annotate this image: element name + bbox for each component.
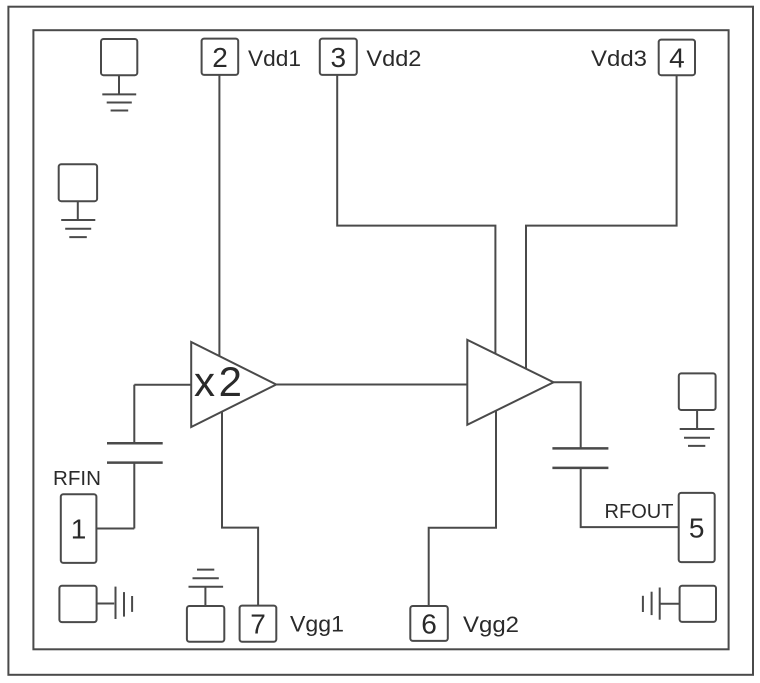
- wire amplifier output to cap C2: [554, 382, 581, 448]
- svg-text:Vdd1: Vdd1: [248, 46, 301, 71]
- svg-text:7: 7: [250, 609, 266, 640]
- svg-text:6: 6: [421, 609, 437, 640]
- ground (below left pad): [61, 201, 95, 237]
- svg-text:RFIN: RFIN: [53, 468, 101, 490]
- ground (left of bottom-right pad, rotated): [643, 588, 680, 620]
- wire Vdd3 to amplifier: [526, 75, 677, 369]
- wire Vdd2 to amplifier: [337, 75, 495, 354]
- capacitor C1 (input blocking cap): [107, 443, 163, 462]
- pin 6 box: [410, 606, 448, 641]
- pad P3 (right bond pad): [679, 373, 716, 410]
- svg-text:1: 1: [71, 514, 87, 545]
- ground (right of bottom-left pad, rotated): [97, 587, 133, 619]
- svg-text:3: 3: [331, 42, 347, 73]
- pad P5 (bond pad below inverted ground): [187, 606, 224, 642]
- wire Vgg1 from doubler to pin 7: [222, 412, 258, 606]
- wire Vgg2 from amplifier to pin 6: [429, 411, 496, 606]
- capacitor C2 (output blocking cap): [552, 448, 608, 468]
- wire cap C2 to pin 5: [581, 468, 679, 527]
- pin 5 box: [679, 493, 715, 562]
- ground (above pad near pin 7, inverted): [189, 570, 224, 606]
- pin 1 box: [61, 494, 97, 563]
- pad P4 (bottom-left bond pad): [59, 586, 96, 622]
- pin 7 box: [240, 606, 277, 642]
- svg-text:Vgg1: Vgg1: [290, 612, 344, 637]
- pin 3 box: [320, 39, 357, 75]
- svg-text:Vdd3: Vdd3: [591, 46, 647, 71]
- ground (below right pad): [680, 410, 715, 446]
- amplifier U2 (gain stage triangle): [467, 340, 553, 425]
- svg-text:5: 5: [689, 513, 705, 544]
- wire cap C1 top stem: [133, 385, 135, 444]
- pad P1 (top-left bond pad): [101, 39, 137, 75]
- svg-text:RFOUT: RFOUT: [605, 500, 674, 523]
- pad P2 (left bond pad): [59, 164, 97, 201]
- wire pin1 to cap C1: [96, 528, 134, 530]
- pin 2 box: [202, 39, 239, 75]
- wire doubler to amplifier: [276, 384, 467, 386]
- pin 4 box: [659, 40, 695, 76]
- doubler U1 (x2 triangle): [191, 342, 276, 427]
- wire RF input to doubler: [134, 384, 191, 386]
- wire cap C1 bottom stem: [133, 463, 135, 529]
- svg-text:x2: x2: [194, 358, 242, 405]
- ground (below top-left pad): [102, 75, 136, 110]
- svg-text:Vgg2: Vgg2: [463, 612, 519, 637]
- wire Vdd1 to doubler: [218, 75, 220, 357]
- svg-text:2: 2: [212, 42, 228, 73]
- svg-text:Vdd2: Vdd2: [366, 46, 421, 71]
- pad P6 (bottom-right bond pad): [680, 586, 716, 622]
- svg-text:4: 4: [669, 43, 685, 74]
